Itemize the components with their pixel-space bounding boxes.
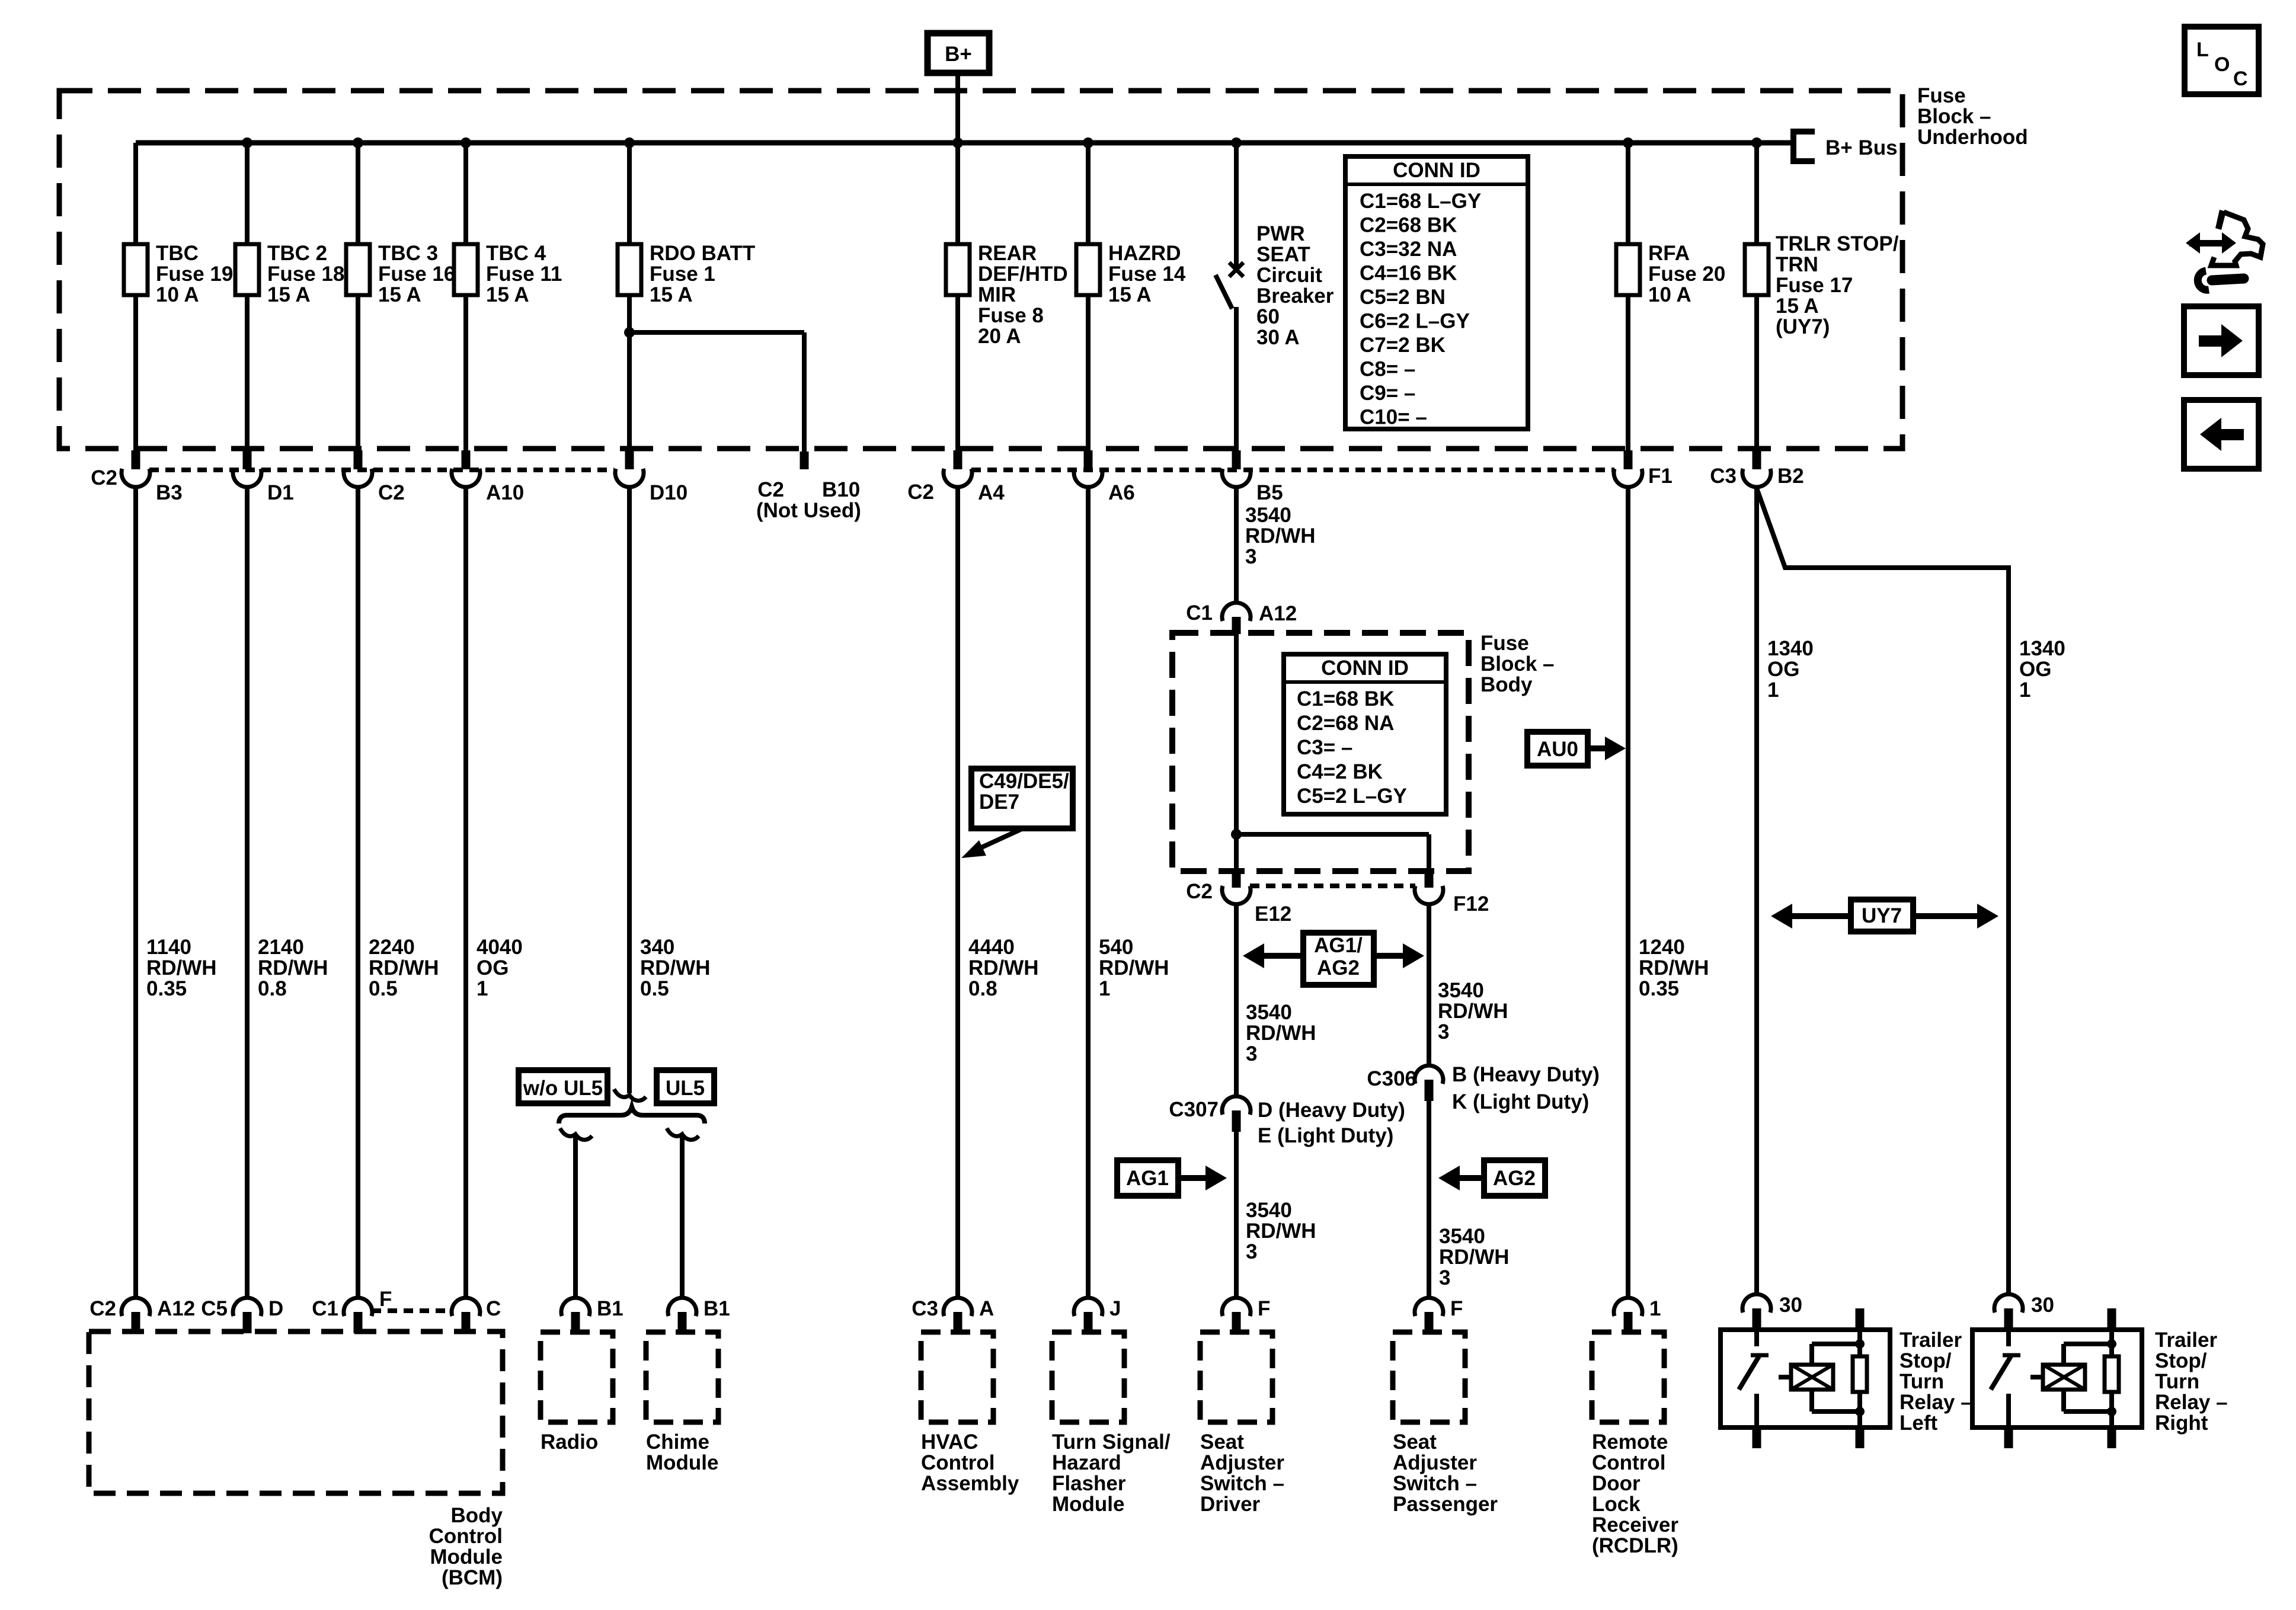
- svg-text:540: 540: [1099, 936, 1133, 959]
- svg-text:F: F: [1258, 1297, 1270, 1320]
- svg-text:60: 60: [1256, 305, 1280, 328]
- svg-text:AG2: AG2: [1317, 956, 1360, 980]
- svg-text:10 A: 10 A: [1648, 283, 1691, 306]
- B+ terminal: [928, 33, 989, 73]
- connector pin A10 (fuse block underhood): [462, 450, 471, 469]
- connector C306 pins B/K: [1415, 1065, 1443, 1084]
- svg-text:C2: C2: [757, 478, 784, 501]
- svg-text:C2: C2: [91, 466, 117, 489]
- fuse block body boundary: [1172, 633, 1469, 871]
- svg-text:1: 1: [1099, 977, 1110, 1000]
- svg-text:RD/WH: RD/WH: [1099, 956, 1169, 980]
- svg-text:Breaker: Breaker: [1256, 284, 1334, 308]
- svg-text:Flasher: Flasher: [1052, 1472, 1126, 1495]
- svg-text:CONN ID: CONN ID: [1393, 159, 1480, 182]
- connector BCM pin A12: [121, 1298, 150, 1316]
- svg-text:D10: D10: [650, 481, 687, 504]
- wire fuse F8 to connector: [955, 295, 960, 452]
- svg-text:RD/WH: RD/WH: [640, 956, 711, 980]
- svg-text:C5: C5: [201, 1297, 228, 1320]
- fuse F11 TBC 4 Fuse 11 15 A: [454, 244, 478, 295]
- fuse F14 HAZRD Fuse 14 15 A: [1076, 244, 1100, 295]
- svg-text:30: 30: [1779, 1294, 1802, 1317]
- svg-text:AG2: AG2: [1493, 1167, 1536, 1190]
- svg-text:RD/WH: RD/WH: [1245, 524, 1316, 548]
- wire branch to B10: [629, 330, 804, 335]
- svg-text:3: 3: [1438, 1020, 1449, 1044]
- svg-text:RD/WH: RD/WH: [1439, 1246, 1510, 1269]
- svg-text:Radio: Radio: [541, 1430, 598, 1454]
- svg-text:DEF/HTD: DEF/HTD: [978, 263, 1068, 286]
- svg-text:C1: C1: [312, 1297, 338, 1320]
- connector C1 pin A12 (fuse block body): [1222, 603, 1251, 621]
- svg-text:TRN: TRN: [1776, 253, 1818, 276]
- svg-text:Receiver: Receiver: [1592, 1513, 1678, 1537]
- svg-text:E (Light Duty): E (Light Duty): [1258, 1124, 1393, 1147]
- chime module box: [646, 1332, 718, 1422]
- svg-text:3540: 3540: [1246, 1199, 1292, 1222]
- svg-text:3540: 3540: [1439, 1225, 1485, 1248]
- svg-text:C4=16 BK: C4=16 BK: [1360, 262, 1457, 285]
- AG2 callout: [1484, 1160, 1545, 1196]
- svg-text:Switch –: Switch –: [1200, 1472, 1284, 1495]
- svg-text:D: D: [268, 1297, 283, 1320]
- svg-text:4040: 4040: [477, 936, 523, 959]
- svg-text:UY7: UY7: [1862, 904, 1902, 927]
- svg-text:B5: B5: [1256, 481, 1283, 504]
- svg-text:HVAC: HVAC: [921, 1430, 978, 1454]
- svg-text:C: C: [486, 1297, 501, 1320]
- harness repair icon: [2189, 240, 2224, 247]
- svg-text:B1: B1: [703, 1297, 730, 1320]
- svg-text:F1: F1: [1648, 465, 1673, 488]
- svg-text:C3: C3: [1710, 465, 1737, 488]
- connector pin F12 (fuse block body): [1425, 871, 1434, 888]
- svg-text:C4=2 BK: C4=2 BK: [1297, 760, 1383, 783]
- wire bus to fuse F18: [245, 143, 250, 244]
- svg-text:Block –: Block –: [1480, 652, 1555, 676]
- wire to chime module: [680, 1134, 685, 1299]
- trailer stop/turn relay left node top: [1855, 1339, 1865, 1349]
- remote control door lock receiver (RCDLR) box: [1592, 1332, 1664, 1422]
- node bus tap fuse 16: [353, 137, 363, 148]
- svg-text:Seat: Seat: [1200, 1430, 1244, 1454]
- trailer stop/turn relay left resistor: [1856, 1308, 1865, 1330]
- trailer stop/turn relay right box: [1972, 1330, 2142, 1427]
- w/o UL5 option box: [519, 1070, 607, 1103]
- fuse F16 TBC 3 Fuse 16 15 A: [346, 244, 370, 295]
- previous page arrow icon: [2184, 400, 2259, 469]
- B+ bus wire: [136, 140, 1793, 146]
- svg-text:15 A: 15 A: [1108, 283, 1152, 306]
- node bus tap fuse 11: [461, 137, 471, 148]
- svg-text:1: 1: [1649, 1297, 1661, 1320]
- svg-text:Underhood: Underhood: [1917, 126, 2028, 149]
- connector pin C2 (fuse block underhood): [354, 450, 363, 469]
- svg-text:0.8: 0.8: [968, 977, 997, 1000]
- svg-text:Module: Module: [646, 1451, 718, 1474]
- trailer stop/turn relay right node bottom: [2107, 1407, 2116, 1416]
- option start hook (chime wire): [667, 1128, 699, 1140]
- splice option end hook (340 wire): [614, 1089, 646, 1100]
- wire fuse F16 to connector: [356, 295, 360, 452]
- svg-text:0.35: 0.35: [1639, 977, 1679, 1000]
- svg-text:B+ Bus: B+ Bus: [1825, 136, 1898, 159]
- svg-text:3540: 3540: [1438, 979, 1484, 1002]
- wire to radio: [573, 1134, 578, 1299]
- wire 2240 RD/WH 0.5: [356, 486, 360, 1299]
- wire 4040 OG 1: [463, 486, 468, 1299]
- svg-text:F: F: [379, 1288, 392, 1311]
- svg-text:C2: C2: [1186, 880, 1213, 903]
- svg-text:A6: A6: [1108, 481, 1135, 504]
- svg-text:Left: Left: [1900, 1411, 1938, 1435]
- B+ bus terminal bracket: [1790, 129, 1796, 164]
- svg-text:(UY7): (UY7): [1776, 315, 1830, 338]
- fuse block underhood boundary: [59, 91, 1902, 449]
- svg-text:3: 3: [1246, 1240, 1257, 1263]
- svg-text:Control: Control: [1592, 1451, 1665, 1474]
- circuit breaker 60 PWR SEAT 30 A: [1234, 143, 1239, 271]
- svg-text:RFA: RFA: [1648, 242, 1690, 265]
- svg-text:C8= –: C8= –: [1360, 358, 1415, 381]
- svg-text:Turn Signal/: Turn Signal/: [1052, 1430, 1171, 1454]
- svg-text:OG: OG: [1767, 658, 1799, 681]
- seat adjuster switch driver box: [1200, 1332, 1272, 1422]
- trailer stop/turn relay left switch: [1754, 1330, 1759, 1346]
- svg-text:RD/WH: RD/WH: [258, 956, 328, 980]
- CONN ID table (fuse block underhood): [1345, 156, 1528, 429]
- wire bus to fuse F8: [955, 143, 960, 244]
- body control module (BCM) box: [89, 1331, 503, 1493]
- wire 540 RD/WH 1: [1086, 486, 1091, 1299]
- connector pin A6 (fuse block underhood): [1084, 450, 1093, 469]
- svg-text:2240: 2240: [369, 936, 415, 959]
- svg-text:15 A: 15 A: [267, 283, 311, 306]
- svg-text:Assembly: Assembly: [921, 1472, 1019, 1495]
- wire fuse F17 to connector: [1754, 295, 1759, 452]
- wire bus to fuse F16: [356, 143, 360, 244]
- wire B+ to bus: [955, 73, 960, 145]
- svg-text:15 A: 15 A: [650, 283, 693, 306]
- wire 1340 OG to left relay: [1754, 486, 1759, 1295]
- svg-text:D (Heavy Duty): D (Heavy Duty): [1258, 1099, 1405, 1122]
- svg-text:15 A: 15 A: [378, 283, 421, 306]
- wire fuse F20 to connector: [1626, 295, 1630, 452]
- svg-text:Remote: Remote: [1592, 1430, 1668, 1454]
- svg-text:DE7: DE7: [979, 790, 1019, 814]
- svg-text:0.35: 0.35: [146, 977, 187, 1000]
- svg-text:SEAT: SEAT: [1256, 243, 1310, 266]
- svg-text:w/o UL5: w/o UL5: [523, 1077, 603, 1100]
- fuse F19 TBC Fuse 19 10 A: [124, 244, 148, 295]
- svg-text:Fuse 17: Fuse 17: [1776, 274, 1853, 297]
- svg-text:3: 3: [1246, 1042, 1257, 1065]
- option start hook (radio wire): [560, 1128, 592, 1140]
- svg-text:Circuit: Circuit: [1256, 264, 1322, 287]
- svg-text:3540: 3540: [1246, 1001, 1292, 1024]
- connector C2 pin E12 (fuse block body): [1232, 871, 1241, 888]
- node bus tap fuse 14: [1083, 137, 1093, 148]
- BCM connector C1 dotted face line: [372, 1308, 452, 1313]
- svg-text:Fuse 16: Fuse 16: [378, 263, 455, 286]
- svg-text:REAR: REAR: [978, 242, 1037, 265]
- svg-text:OG: OG: [477, 956, 509, 980]
- svg-text:Passenger: Passenger: [1393, 1493, 1498, 1516]
- svg-text:C6=2 L–GY: C6=2 L–GY: [1360, 310, 1470, 333]
- svg-text:C9= –: C9= –: [1360, 382, 1415, 405]
- svg-text:AG1/: AG1/: [1314, 934, 1363, 957]
- svg-text:TBC 2: TBC 2: [267, 242, 327, 265]
- svg-text:C3= –: C3= –: [1297, 736, 1352, 759]
- svg-text:3: 3: [1245, 545, 1256, 568]
- connector C2 pin B3 (fuse block underhood): [132, 450, 140, 469]
- wire C306 to seat adjuster passenger: [1427, 1101, 1431, 1299]
- wire 1240 RD/WH 0.35: [1626, 486, 1630, 1299]
- svg-text:Fuse 18: Fuse 18: [267, 263, 344, 286]
- wire fuse F1 to connector: [627, 295, 632, 452]
- svg-text:C49/DE5/: C49/DE5/: [979, 770, 1069, 793]
- connector chime pin B1: [668, 1298, 696, 1316]
- node bus tap fuse 1: [624, 137, 635, 148]
- wire C2/E12 to C307: [1234, 904, 1239, 1097]
- svg-text:Turn: Turn: [2155, 1370, 2199, 1393]
- svg-text:HAZRD: HAZRD: [1108, 242, 1181, 265]
- svg-text:A10: A10: [486, 481, 524, 504]
- svg-text:L: L: [2196, 39, 2209, 61]
- svg-text:J: J: [1109, 1297, 1121, 1320]
- UL5 option box: [657, 1070, 714, 1103]
- wire fuse F14 to connector: [1086, 295, 1091, 452]
- svg-text:Fuse 19: Fuse 19: [156, 263, 233, 286]
- svg-text:C1: C1: [1186, 601, 1213, 625]
- svg-text:B3: B3: [156, 481, 183, 504]
- fuse F8 REAR DEF/HTD MIR Fuse 8 20 A: [946, 244, 970, 295]
- svg-text:F: F: [1450, 1297, 1463, 1320]
- svg-text:15 A: 15 A: [486, 283, 529, 306]
- svg-text:Fuse 1: Fuse 1: [650, 263, 715, 286]
- node bus tap fuse 18: [242, 137, 252, 148]
- fuse F20 RFA Fuse 20 10 A: [1616, 244, 1640, 295]
- wire 1140 RD/WH 0.35: [133, 486, 138, 1299]
- seat adjuster switch passenger box: [1393, 1332, 1465, 1422]
- connector BCM pin D: [233, 1298, 261, 1316]
- svg-text:K (Light Duty): K (Light Duty): [1452, 1090, 1589, 1113]
- connector flasher pin J: [1074, 1298, 1102, 1316]
- svg-text:C306: C306: [1367, 1067, 1416, 1090]
- connector HVAC pin A: [944, 1298, 972, 1316]
- svg-text:Trailer: Trailer: [2155, 1329, 2217, 1352]
- svg-text:Trailer: Trailer: [1900, 1329, 1962, 1352]
- svg-text:0.5: 0.5: [640, 977, 669, 1000]
- connector radio pin B1: [561, 1298, 590, 1316]
- trailer stop/turn relay left box: [1721, 1330, 1890, 1427]
- trailer stop/turn relay right resistor: [2108, 1308, 2116, 1330]
- svg-text:Turn: Turn: [1900, 1370, 1944, 1393]
- svg-text:TBC 3: TBC 3: [378, 242, 438, 265]
- svg-text:Adjuster: Adjuster: [1200, 1451, 1284, 1474]
- svg-text:Stop/: Stop/: [2155, 1349, 2207, 1372]
- svg-text:RD/WH: RD/WH: [1438, 1000, 1508, 1023]
- connector BCM pin C: [452, 1298, 480, 1316]
- svg-text:B10: B10: [822, 478, 860, 501]
- node RDO BATT branch: [624, 327, 635, 338]
- UY7 range arrows: [1851, 900, 1913, 932]
- svg-text:Driver: Driver: [1200, 1493, 1261, 1516]
- wire 3540 RD/WH 3 (B5 to fuse block body): [1234, 486, 1239, 604]
- next page arrow icon: [2184, 306, 2259, 375]
- svg-text:TBC: TBC: [156, 242, 199, 265]
- svg-text:A: A: [979, 1297, 994, 1320]
- connector pin D10 (fuse block underhood): [625, 450, 634, 469]
- svg-text:RDO BATT: RDO BATT: [650, 242, 755, 265]
- svg-text:D1: D1: [267, 481, 294, 504]
- wire 340 RD/WH 0.5: [627, 486, 632, 1093]
- connector face dotted line (underhood left): [149, 468, 614, 472]
- wire inside fuse block body: [1234, 634, 1239, 871]
- AU0 callout: [1527, 732, 1588, 766]
- svg-text:C2: C2: [907, 481, 934, 504]
- svg-text:C: C: [2233, 68, 2248, 90]
- AG1/AG2 range arrows: [1303, 933, 1374, 985]
- wire fuse F18 to connector: [245, 295, 250, 452]
- connector seat passenger pin F: [1415, 1298, 1443, 1316]
- svg-text:1: 1: [477, 977, 488, 1000]
- svg-text:Control: Control: [429, 1525, 503, 1548]
- svg-text:15 A: 15 A: [1776, 295, 1819, 318]
- svg-text:B+: B+: [945, 43, 972, 66]
- svg-text:1240: 1240: [1639, 936, 1685, 959]
- wire branch to F12: [1236, 832, 1429, 837]
- trailer stop/turn relay right node top: [2107, 1339, 2116, 1349]
- svg-text:C1=68 BK: C1=68 BK: [1297, 687, 1394, 710]
- wire bus to fuse F14: [1086, 143, 1091, 244]
- svg-text:RD/WH: RD/WH: [1246, 1219, 1316, 1243]
- connector face dotted line (underhood right): [971, 468, 1614, 472]
- svg-text:340: 340: [640, 936, 674, 959]
- node bus tap breaker 60: [1231, 137, 1242, 148]
- connector pin F1 (fuse block underhood): [1624, 450, 1633, 469]
- connector C2 pin B10 (not used): [800, 452, 809, 469]
- connector pin B5 (fuse block underhood): [1232, 450, 1241, 469]
- svg-text:F12: F12: [1453, 892, 1489, 916]
- svg-text:Right: Right: [2155, 1411, 2208, 1435]
- svg-text:C3=32 NA: C3=32 NA: [1360, 238, 1457, 261]
- node bus tap fuse 8: [952, 137, 963, 148]
- svg-text:Stop/: Stop/: [1900, 1349, 1952, 1372]
- fuse F18 TBC 2 Fuse 18 15 A: [235, 244, 259, 295]
- svg-text:C10= –: C10= –: [1360, 406, 1427, 429]
- svg-text:C5=2 BN: C5=2 BN: [1360, 286, 1446, 309]
- svg-text:3: 3: [1439, 1266, 1450, 1289]
- svg-text:Fuse: Fuse: [1480, 632, 1529, 655]
- svg-text:Hazard: Hazard: [1052, 1451, 1121, 1474]
- svg-text:10 A: 10 A: [156, 283, 199, 306]
- wire bus to fuse F1: [627, 143, 632, 244]
- radio box: [541, 1332, 613, 1422]
- trailer stop/turn relay left coil: [1791, 1365, 1833, 1390]
- fuse F1 RDO BATT Fuse 1 15 A: [618, 244, 641, 295]
- wire fuse F11 to connector: [463, 295, 468, 452]
- C49/DE5/DE7 callout: [971, 769, 1073, 828]
- svg-text:Chime: Chime: [646, 1430, 709, 1454]
- svg-text:A12: A12: [1259, 602, 1297, 625]
- svg-text:(BCM): (BCM): [442, 1566, 503, 1589]
- svg-text:3540: 3540: [1245, 504, 1291, 527]
- svg-text:C2=68 NA: C2=68 NA: [1297, 712, 1394, 735]
- wire bus to fuse F19: [133, 143, 138, 244]
- wire 1340 OG to right relay: [1757, 488, 2009, 1295]
- svg-text:RD/WH: RD/WH: [146, 956, 217, 980]
- svg-text:0.5: 0.5: [369, 977, 398, 1000]
- svg-text:TRLR STOP/: TRLR STOP/: [1776, 232, 1899, 255]
- svg-text:20 A: 20 A: [978, 325, 1021, 348]
- svg-text:30: 30: [2031, 1294, 2054, 1317]
- svg-text:Module: Module: [430, 1545, 503, 1569]
- svg-text:Module: Module: [1052, 1493, 1124, 1516]
- svg-text:AG1: AG1: [1126, 1167, 1169, 1190]
- svg-text:(RCDLR): (RCDLR): [1592, 1534, 1678, 1557]
- trailer stop/turn relay right coil: [2043, 1365, 2085, 1390]
- svg-text:Relay –: Relay –: [1900, 1391, 1972, 1414]
- turn signal/hazard flasher module box: [1052, 1332, 1124, 1422]
- svg-text:4440: 4440: [968, 936, 1015, 959]
- svg-text:Door: Door: [1592, 1472, 1641, 1495]
- svg-text:1340: 1340: [2019, 637, 2065, 660]
- relay left pin 30 connector: [1742, 1294, 1771, 1313]
- wire 2140 RD/WH 0.8: [245, 486, 250, 1299]
- svg-text:RD/WH: RD/WH: [1246, 1022, 1316, 1045]
- svg-text:Fuse 8: Fuse 8: [978, 304, 1044, 327]
- CONN ID table (fuse block body): [1284, 654, 1446, 814]
- wire F12 to C306: [1427, 904, 1431, 1067]
- svg-text:0.8: 0.8: [258, 977, 287, 1000]
- wire bus to fuse F11: [463, 143, 468, 244]
- svg-text:1: 1: [2019, 678, 2030, 702]
- svg-text:A12: A12: [157, 1297, 195, 1320]
- svg-text:B1: B1: [597, 1297, 623, 1320]
- connector pin D1 (fuse block underhood): [243, 450, 252, 469]
- svg-text:PWR: PWR: [1256, 222, 1305, 245]
- svg-text:RD/WH: RD/WH: [968, 956, 1039, 980]
- LOC icon: [2185, 27, 2259, 94]
- wire bus to fuse F17: [1754, 143, 1759, 244]
- svg-text:Seat: Seat: [1393, 1430, 1437, 1454]
- option brace: [559, 1107, 705, 1124]
- svg-text:C5=2 L–GY: C5=2 L–GY: [1297, 785, 1407, 808]
- svg-text:O: O: [2214, 53, 2230, 76]
- svg-text:1: 1: [1767, 678, 1779, 702]
- connector C2 pin A4 (fuse block underhood): [954, 450, 962, 469]
- svg-text:C2: C2: [378, 481, 405, 504]
- svg-text:Body: Body: [1480, 673, 1533, 696]
- svg-text:Switch –: Switch –: [1393, 1472, 1477, 1495]
- connector C307 pins D/E: [1222, 1096, 1251, 1115]
- wire bus to fuse F20: [1626, 143, 1630, 244]
- svg-text:1340: 1340: [1767, 637, 1814, 660]
- svg-text:RD/WH: RD/WH: [369, 956, 439, 980]
- svg-text:2140: 2140: [258, 936, 304, 959]
- svg-text:A4: A4: [978, 481, 1005, 504]
- svg-text:TBC 4: TBC 4: [486, 242, 546, 265]
- connector seat driver pin F: [1222, 1298, 1251, 1316]
- svg-text:C2=68 BK: C2=68 BK: [1360, 214, 1457, 237]
- svg-text:(Not Used): (Not Used): [756, 499, 861, 522]
- node bus tap fuse 17: [1751, 137, 1762, 148]
- svg-text:CONN ID: CONN ID: [1321, 657, 1409, 680]
- svg-text:Fuse 20: Fuse 20: [1648, 263, 1725, 286]
- connector RCDLR pin 1: [1614, 1298, 1642, 1316]
